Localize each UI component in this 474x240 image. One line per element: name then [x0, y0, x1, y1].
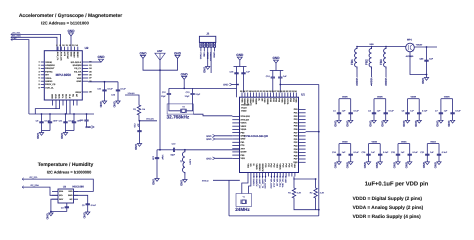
U1 right pin 2 [299, 112, 306, 114]
U2 bottom pin 2 [55, 100, 57, 106]
U2 left pin 7 [41, 80, 45, 82]
connector J2 pin 3 pad [207, 42, 209, 47]
ground below C27 [379, 160, 381, 162]
U1 left pin 8 [232, 138, 239, 140]
svg-text:SWDCK: SWDCK [261, 164, 264, 173]
U1 left pin 5 [232, 128, 239, 130]
svg-text:SPI_MOSI: SPI_MOSI [264, 179, 267, 189]
ground below C28 [397, 160, 399, 162]
U1 bottom pin 10 [273, 173, 275, 177]
svg-text:GND: GND [402, 121, 406, 127]
U1 top pin 7 [258, 93, 260, 98]
svg-text:VDDA: VDDA [401, 140, 407, 143]
wire gnd to Y2 rail [183, 79, 185, 88]
U1 bottom pin 16 [291, 173, 293, 177]
svg-text:VDDA: VDDA [430, 140, 436, 143]
U1 top pin 15 [281, 93, 283, 98]
U1 top pin 17 [287, 93, 289, 98]
svg-text:UART_TX: UART_TX [261, 179, 264, 189]
U1 right pin 3 [299, 115, 306, 117]
svg-text:VDDR: VDDR [384, 78, 387, 85]
U1 left pin 2 [232, 119, 239, 121]
capacitor C3 [373, 99, 375, 108]
svg-text:GND: GND [46, 213, 50, 219]
U1 right pin 15 [299, 155, 306, 157]
U1 left pin 13 [232, 154, 239, 156]
svg-text:GND: GND [97, 55, 105, 59]
wire cap rail 1 [234, 66, 247, 68]
wire crystal rail to U1 [193, 87, 237, 89]
capacitor C27 [379, 144, 381, 150]
svg-text:GNDIO: GNDIO [45, 80, 52, 83]
U1 right pin 6 [299, 125, 306, 127]
U1 bottom pin 14 [285, 173, 287, 177]
ground below L2 [184, 178, 186, 180]
U2 right pin 6 [82, 77, 88, 79]
wire U2 bottom pin loop [35, 106, 59, 115]
U1 bottom pin 8 [268, 173, 270, 177]
svg-text:XTAL32I: XTAL32I [241, 118, 250, 121]
junction VDDR rail [279, 84, 281, 86]
ground below J2 [207, 65, 209, 68]
svg-text:VSSD: VSSD [241, 110, 247, 113]
capacitor C7 [440, 99, 442, 108]
svg-text:VDDA = Analog Supply (2 pins): VDDA = Analog Supply (2 pins) [353, 205, 424, 211]
svg-text:VCCD: VCCD [241, 107, 247, 110]
wire R3 bottom [139, 117, 157, 121]
wire C16 down to U1 [236, 80, 238, 97]
wire right pin to VDDR rail [306, 131, 319, 133]
capacitor C5 [407, 99, 409, 108]
connector J2 pin 1 pad [200, 42, 202, 47]
wire J2 pin 3 [207, 47, 209, 51]
svg-text:ANT: ANT [157, 50, 163, 53]
svg-text:AUX: AUX [65, 94, 68, 99]
U2 left pin 1 [41, 61, 45, 63]
wire MP1 right [414, 46, 437, 48]
svg-text:SCL: SCL [61, 94, 64, 99]
svg-text:0.1uF: 0.1uF [383, 151, 389, 154]
wire XO stub left [213, 179, 240, 181]
capacitor C25 [350, 144, 352, 150]
svg-text:VSS: VSS [263, 98, 266, 103]
svg-text:12pF: 12pF [185, 95, 190, 98]
svg-text:GND: GND [434, 162, 438, 168]
svg-text:GND: GND [99, 101, 103, 107]
wire U1 bottom pin to R1 [293, 177, 295, 187]
U1 bottom pin 1 [247, 173, 249, 177]
wire left guard vertical [228, 180, 230, 216]
svg-text:NC: NC [75, 94, 78, 98]
svg-text:VDDR: VDDR [342, 96, 348, 99]
wire C15 to ground arrow [87, 126, 92, 128]
svg-text:VDDD: VDDD [371, 140, 377, 143]
svg-text:XRES: XRES [213, 52, 216, 58]
capacitor C12 [168, 88, 170, 93]
U1 bottom pin 6 [262, 173, 264, 177]
svg-text:VDDR: VDDR [377, 96, 383, 99]
svg-text:CYBL10161-56LQXI: CYBL10161-56LQXI [244, 135, 268, 138]
svg-text:RDY: RDY [59, 198, 64, 201]
svg-text:SWDIO: SWDIO [252, 179, 255, 186]
wire R2 bottom [315, 200, 317, 210]
svg-text:0.1uF: 0.1uF [442, 151, 448, 154]
ferrite bead FB2 [369, 47, 371, 70]
capacitor C5 [87, 200, 89, 204]
wire right vertical rail [318, 85, 320, 216]
U1 right pin 14 [299, 151, 306, 153]
U2 top pin 6 [74, 47, 76, 51]
svg-text:VDDR: VDDR [243, 98, 246, 105]
svg-text:GND: GND [202, 52, 205, 57]
wire J2 pin 1 [200, 47, 202, 51]
svg-text:GND: GND [223, 84, 229, 87]
svg-text:GND: GND [67, 29, 75, 33]
wire U3 GND pin to C5 [74, 195, 88, 199]
svg-text:GND: GND [68, 194, 73, 197]
U1 right pin 9 [299, 135, 306, 137]
svg-text:VDD: VDD [77, 77, 82, 80]
svg-text:CLK: CLK [68, 94, 71, 99]
svg-text:GND: GND [363, 162, 367, 168]
svg-text:GND: GND [422, 162, 426, 168]
svg-text:0.1uF: 0.1uF [389, 109, 395, 112]
capacitor C29 [409, 144, 411, 150]
svg-text:0.1uF: 0.1uF [354, 151, 360, 154]
capacitor C2 [350, 99, 352, 108]
svg-text:MPU-9250: MPU-9250 [56, 73, 71, 77]
wire caps C11 C14 join [66, 130, 75, 132]
crystal Y2 box [167, 104, 193, 114]
svg-text:ES_CL: ES_CL [74, 67, 82, 70]
U2 top pin 2 [60, 47, 62, 51]
U2 bottom pin 8 [76, 100, 78, 106]
U2 right pin 5 [82, 74, 88, 76]
svg-text:0.1uF: 0.1uF [108, 88, 114, 91]
svg-text:FB2: FB2 [365, 59, 369, 65]
wire J2 pin 2 [203, 47, 205, 51]
U1 bottom pin 9 [270, 173, 272, 177]
junction on bus at C15 [86, 113, 88, 115]
wire gnd to cap rail [239, 60, 241, 67]
U1 right pin 5 [299, 122, 306, 124]
net tail SPI_MISO below U1 [270, 177, 272, 179]
svg-text:GND: GND [206, 138, 212, 141]
net tick I2C_SDA [11, 36, 13, 39]
svg-text:AUX_CL: AUX_CL [45, 86, 54, 89]
net tail I2C_SCL below U1 [279, 177, 281, 179]
svg-text:SPI_MISO: SPI_MISO [270, 179, 273, 189]
svg-text:LED: LED [284, 179, 287, 183]
svg-text:I2C_SCL: I2C_SCL [29, 176, 38, 179]
svg-text:XTAL32O: XTAL32O [146, 118, 154, 121]
svg-text:I2C Address = b1000000: I2C Address = b1000000 [47, 170, 92, 175]
svg-text:VDDD = Digital Supply (2 pins): VDDD = Digital Supply (2 pins) [353, 196, 423, 202]
net tail SWDCK below U1 [256, 177, 258, 179]
capacitor C16 [236, 67, 238, 73]
svg-text:VSS: VSS [276, 164, 279, 169]
capacitor C11 [65, 114, 67, 122]
capacitor C8 [452, 99, 454, 108]
net tail SWDIO below U1 [253, 177, 255, 179]
svg-text:0.1uF: 0.1uF [121, 88, 127, 91]
svg-text:GND: GND [380, 121, 384, 127]
U1 bottom pin 17 [294, 173, 296, 177]
U1 right pin 11 [299, 142, 306, 144]
svg-text:GND: GND [60, 133, 64, 139]
U3 left pin 1 [52, 190, 58, 192]
connector J2 pin 2 pad [203, 42, 205, 47]
U1 left pin 14 [232, 157, 239, 159]
svg-text:VDDA: VDDA [370, 78, 373, 85]
U1 top pin 18 [290, 93, 292, 98]
capacitor C15 [86, 114, 88, 120]
U1 right pin 8 [299, 132, 306, 134]
svg-text:GND: GND [82, 212, 86, 218]
svg-text:12pF: 12pF [161, 95, 166, 98]
svg-text:10nF: 10nF [53, 120, 58, 123]
wire cap group rail VDDD [369, 143, 381, 145]
wire INT to lower bus [11, 40, 29, 114]
svg-text:FB3: FB3 [379, 59, 383, 65]
svg-text:1M: 1M [142, 108, 145, 111]
svg-text:0.1uF: 0.1uF [413, 151, 419, 154]
connector J2 pin 4 pad [210, 42, 212, 47]
wire MP1 gate down [410, 52, 427, 75]
U3 left pin 2 [52, 194, 58, 196]
U3 right pin 1 [74, 190, 79, 192]
capacitor C14 [73, 114, 75, 122]
svg-text:VDDR = Radio Supply (4 pins): VDDR = Radio Supply (4 pins) [353, 214, 421, 220]
svg-text:VDDIO: VDDIO [45, 61, 52, 64]
svg-text:VDD: VDD [54, 94, 57, 99]
svg-text:VCCD: VCCD [286, 98, 289, 105]
U2 left pin 5 [41, 74, 45, 76]
U1 top pin 2 [244, 93, 246, 98]
U1 right pin 13 [299, 148, 306, 150]
net tail SPI_MOSI below U1 [265, 177, 267, 179]
svg-text:GND: GND [345, 121, 349, 127]
svg-text:GND: GND [36, 133, 40, 139]
svg-text:GANT: GANT [241, 151, 248, 154]
svg-text:I2C_SCL: I2C_SCL [12, 31, 21, 34]
wire C20 down to U1 [279, 85, 281, 93]
U1 top pin 11 [270, 93, 272, 98]
ground below C26 [368, 160, 370, 162]
capacitor C19 shunt [156, 150, 158, 158]
svg-text:GND: GND [345, 162, 349, 168]
svg-text:VSS: VSS [246, 164, 249, 169]
U1 left pin 10 [232, 145, 239, 147]
U1 top pin 10 [267, 93, 269, 98]
ground below C24 [338, 160, 340, 162]
wire cap group rail VDDA [427, 143, 439, 145]
svg-text:VDDA: VDDA [45, 77, 52, 80]
U2 right pin 4 [82, 71, 88, 73]
U1 left pin 12 [232, 151, 239, 153]
U1 right pin 7 [299, 128, 306, 130]
svg-text:AUX_DA: AUX_DA [60, 52, 63, 61]
svg-text:GND: GND [447, 121, 451, 127]
svg-text:GND: GND [180, 180, 184, 186]
wire cap group rail VDDR [339, 98, 351, 100]
net tick I2C_SDA temp [22, 186, 24, 189]
net tail UART_RX below U1 [259, 177, 261, 179]
capacitor C23 [117, 82, 119, 90]
junction C30 bottom [426, 74, 428, 76]
wire C13 to Y2 [186, 100, 192, 111]
wire R1 R2 top rail [294, 178, 316, 180]
U1 bottom pin 12 [279, 173, 281, 177]
svg-text:GND: GND [241, 138, 246, 141]
svg-text:GND: GND [77, 80, 82, 83]
svg-text:SDA: SDA [58, 94, 61, 99]
U2 right pin 2 [82, 64, 88, 66]
resistor R3 [137, 103, 140, 117]
ground below C11 C14 [65, 131, 67, 133]
U1 bottom pin 2 [250, 173, 252, 177]
svg-text:VSS: VSS [293, 164, 296, 169]
svg-text:SPI_SS: SPI_SS [275, 179, 278, 187]
svg-text:XTALO: XTALO [202, 179, 209, 182]
svg-text:U2: U2 [85, 46, 89, 50]
wire J2 pin 4 [210, 47, 212, 51]
svg-text:SWDIO: SWDIO [258, 164, 261, 172]
wire antenna node right [177, 149, 240, 151]
U1 bottom pin 3 [253, 173, 255, 177]
junction C14 top [73, 113, 75, 115]
capacitor C32 [438, 144, 440, 150]
svg-text:SWDCK: SWDCK [255, 179, 258, 187]
U3 right pin 3 [74, 198, 79, 200]
capacitor C30 [426, 47, 428, 60]
svg-text:VDD: VDD [369, 43, 374, 46]
ground below C2 [350, 119, 352, 121]
wire U1 to Y1 pin2 [249, 177, 251, 194]
wire I2C_SCL temp [22, 179, 93, 191]
svg-text:GND: GND [236, 53, 244, 57]
net tail UART_TX below U1 [262, 177, 264, 179]
U1 bottom pin 5 [259, 173, 261, 177]
svg-text:GND: GND [152, 179, 156, 185]
U1 left pin 6 [232, 132, 239, 134]
svg-text:AD0/SDO: AD0/SDO [45, 64, 55, 67]
svg-text:I2C_SCL: I2C_SCL [278, 179, 281, 188]
IC U1 body [240, 97, 299, 172]
capacitor C20 [279, 71, 281, 77]
U2 left pin 2 [41, 64, 45, 66]
svg-text:+VBAT: +VBAT [416, 43, 423, 46]
U1 top pin 20 [295, 93, 297, 98]
ground below MP1 [426, 75, 428, 78]
svg-text:0.1uF: 0.1uF [91, 204, 97, 207]
U2 top pin 3 [64, 47, 66, 51]
U2 top pin 1 [57, 47, 59, 51]
svg-text:VDDD: VDDD [283, 98, 286, 105]
U2 bottom pin 3 [59, 100, 61, 106]
wire bottom rail [229, 215, 319, 217]
wire R3 top [125, 95, 139, 103]
svg-text:SWDCLK: SWDCLK [209, 52, 212, 61]
crystal Y1 symbol [241, 200, 247, 204]
ground below C9 C10 [41, 131, 43, 133]
U1 top pin 13 [275, 93, 277, 98]
wire antenna feed [159, 60, 161, 150]
wire junction link [237, 84, 239, 86]
svg-text:MP1: MP1 [407, 39, 413, 42]
net tail LED below U1 [285, 177, 287, 179]
svg-text:nCS: nCS [63, 52, 66, 57]
wire R1 R2 bottom rail [294, 200, 319, 210]
wire L2 down [184, 175, 186, 178]
U3 right pin 2 [74, 194, 79, 196]
inductor L2 shunt [183, 150, 185, 175]
U1 top pin 14 [278, 93, 280, 98]
connector J2 pin 5 pad [213, 42, 215, 47]
junction on bus at C9 [41, 113, 43, 115]
svg-text:GND: GND [113, 101, 117, 107]
U1 top pin 8 [261, 93, 263, 98]
svg-text:GANT2: GANT2 [249, 98, 252, 106]
wire J2 pin 5 [214, 47, 216, 51]
net tick INT [11, 38, 13, 41]
wire crystal top rail [169, 87, 193, 89]
wire caps C9 C10 join [42, 130, 51, 132]
net tail I2C_SDA below U1 [282, 177, 284, 179]
wire R2 top [315, 179, 317, 186]
U1 top pin 4 [250, 93, 252, 98]
U1 bottom pin 11 [276, 173, 278, 177]
capacitor C10 [49, 114, 51, 122]
U1 right pin 16 [299, 158, 306, 160]
U1 top pin 6 [255, 93, 257, 98]
wire cap group rail VDDD [339, 143, 351, 145]
crystal Y2 symbol [181, 109, 187, 113]
ground below C1 [338, 119, 340, 121]
U1 left pin 4 [232, 125, 239, 127]
wire U1 to Y1 pin1 [242, 177, 248, 194]
U2 top pin 7 [77, 47, 79, 51]
svg-text:GND: GND [69, 52, 72, 57]
wire I2C_SCL to U2 [11, 34, 61, 51]
svg-text:HDC1080: HDC1080 [72, 185, 84, 188]
U1 left pin 9 [232, 141, 239, 143]
svg-text:SCL/SCLK: SCL/SCLK [71, 61, 82, 64]
junction L2 node [184, 149, 186, 151]
svg-text:ANT: ANT [241, 147, 246, 150]
wire C17 down to U1 [243, 80, 245, 93]
wire ground to U2 top [70, 36, 72, 52]
svg-text:15pF: 15pF [170, 154, 175, 157]
capacitor C20 below R3 [139, 121, 141, 131]
ground below C4 [385, 119, 387, 121]
svg-text:1uF+0.1uF per VDD pin: 1uF+0.1uF per VDD pin [365, 180, 429, 187]
junction power rail FB3 [385, 46, 387, 48]
svg-text:2.2K: 2.2K [320, 192, 325, 195]
svg-text:GND: GND [334, 121, 338, 127]
svg-text:AUX_CL: AUX_CL [56, 52, 59, 61]
op IC U2 MPU-9250 body [44, 51, 82, 100]
svg-text:32.768kHz: 32.768kHz [167, 114, 190, 119]
U2 bottom pin 7 [73, 100, 75, 106]
svg-text:VDDR: VDDR [255, 98, 258, 105]
wire I2C_SDA temp [22, 187, 58, 195]
wire cap group rail VDDR [374, 98, 386, 100]
U1 top pin 1 [241, 93, 243, 98]
junction on bus at C11 [65, 113, 67, 115]
svg-text:VDDR: VDDR [410, 96, 416, 99]
capacitor C4 [385, 99, 387, 108]
